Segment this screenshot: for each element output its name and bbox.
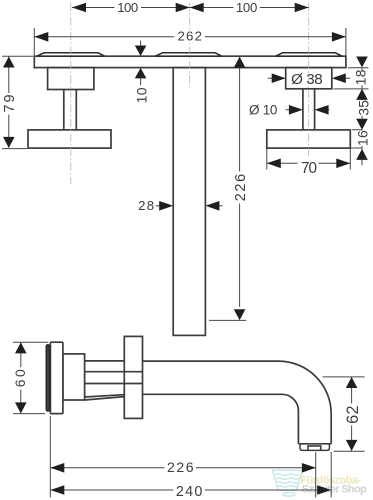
dimension 262: extension lines <box>34 28 346 56</box>
top view: center escutcheon <box>156 53 222 56</box>
side view: flange front ring <box>46 345 49 411</box>
center line right handle <box>308 3 310 158</box>
dimension 100 right: label <box>233 1 260 14</box>
top view: right handle stem <box>303 89 315 130</box>
dimension 226 vertical: bottom arrow <box>234 309 246 320</box>
side view: spout elbow inner curve <box>282 394 298 444</box>
dimension 10 plate: bottom arrow <box>135 68 147 79</box>
side view: spout tube top line (wall section) <box>85 360 125 362</box>
svg-text:18: 18 <box>352 69 368 85</box>
dimension 226 vertical: label <box>233 172 248 204</box>
side view: aerator insert <box>308 446 321 450</box>
dimension 60: bottom arrow <box>15 402 27 413</box>
dimension 18: label <box>355 70 369 85</box>
dimension 28: left arrow <box>156 205 162 207</box>
dimension 60: top arrow <box>15 342 27 353</box>
dimension 226 vertical: reference line <box>209 319 246 321</box>
dimension 262: right arrow <box>332 32 346 42</box>
dimension 79: bottom arrow <box>3 137 15 148</box>
dimension 240: line <box>50 489 331 491</box>
dimension 226 bottom: label <box>165 461 197 475</box>
svg-text:10: 10 <box>133 87 149 103</box>
dimension 100 left: left arrow <box>72 3 86 13</box>
side view: aerator top line <box>298 443 331 445</box>
dimension 79: top arrow <box>3 57 15 68</box>
dimension 240: right arrow <box>317 485 331 495</box>
right chain: extension lines <box>334 68 369 148</box>
dimension 35: label <box>356 100 370 116</box>
svg-text:240: 240 <box>176 484 203 500</box>
svg-text:Ø 10: Ø 10 <box>249 103 278 118</box>
top view: right escutcheon <box>276 53 342 56</box>
dimension 262: left arrow <box>34 32 48 42</box>
extension line flange face <box>49 416 51 498</box>
side view: handle stem bottom line <box>85 383 143 385</box>
dimension 70: line <box>267 162 351 164</box>
top view: right cross handle bar <box>267 130 351 148</box>
svg-text:70: 70 <box>301 160 317 177</box>
dimension 262: label <box>174 30 205 43</box>
dimension 18: bottom arrow <box>356 89 368 100</box>
dimension 62: label <box>344 404 359 426</box>
top view: left escutcheon <box>37 53 105 56</box>
dimension diameter 10: left arrow <box>286 109 292 111</box>
top view: right escutcheon box <box>286 68 332 89</box>
dimension 18: top arrow <box>356 57 368 68</box>
dimension 100 right: left arrow <box>190 3 204 13</box>
dimension 100 right: right arrow <box>295 3 309 13</box>
extension line aerator axis <box>315 452 317 498</box>
dimension 10 plate: top arrow <box>140 41 142 47</box>
dimension 28: right arrow <box>205 201 219 211</box>
dimension 262: line <box>34 36 346 38</box>
side view: aerator band <box>300 444 329 451</box>
dimension 70: right arrow <box>336 159 350 169</box>
side view: tube taper line lower <box>85 397 125 400</box>
dimension 60: line <box>20 342 22 413</box>
dimension 70: left arrow <box>267 159 281 169</box>
side view: spout tube top line (outer section) <box>143 360 279 362</box>
dimension 62: bottom extension <box>334 450 365 452</box>
watermark logo basin <box>272 470 302 496</box>
dimension 16: bottom arrow <box>356 149 368 160</box>
side view: valve body <box>63 354 85 400</box>
dimension 226 bottom: left arrow <box>50 463 64 473</box>
dimension 70: extension lines <box>267 149 351 170</box>
dimension 226 vertical: top arrow <box>234 57 246 68</box>
dimension 60: label <box>14 367 29 390</box>
dimension diameter 38: left arrow <box>268 77 275 79</box>
svg-text:100: 100 <box>117 0 138 15</box>
dimension 62: line <box>351 377 353 451</box>
svg-text:79: 79 <box>2 94 18 112</box>
dimension 226 bottom: right arrow <box>302 463 316 473</box>
dimension diameter 38: right arrow <box>332 73 346 83</box>
dimension 60: extension lines <box>13 342 49 413</box>
dimension 62: top arrow <box>346 377 358 388</box>
svg-text:100: 100 <box>236 0 258 15</box>
dimension 226 vertical: line <box>239 68 241 307</box>
dimension 79: line <box>8 57 10 148</box>
dimension 240: left arrow <box>50 485 64 495</box>
top view: left valve body <box>48 68 94 90</box>
center line left handle <box>70 3 72 184</box>
center line spout <box>189 3 191 90</box>
svg-text:35: 35 <box>357 100 372 116</box>
top view: left cross handle bar <box>28 130 111 148</box>
top view: spout body <box>173 68 205 336</box>
dimension diameter 10: right arrow <box>315 105 329 115</box>
center line spout axis extension <box>323 376 365 378</box>
extension line spout outer edge <box>330 452 332 498</box>
side view: spout elbow outer curve <box>279 361 332 444</box>
svg-text:62: 62 <box>344 405 362 424</box>
dimension 226 bottom: line <box>50 467 316 469</box>
svg-text:226: 226 <box>233 174 249 202</box>
dimension 100 left: right arrow <box>176 3 190 13</box>
side view: tube taper line upper <box>85 395 125 397</box>
top view: left handle stem <box>64 90 77 130</box>
svg-text:226: 226 <box>167 459 194 475</box>
right chain: line <box>361 68 363 166</box>
side view: wall flange plate <box>50 342 63 413</box>
side view: handle stem top line <box>85 371 143 373</box>
svg-text:28: 28 <box>138 198 154 213</box>
svg-text:16: 16 <box>356 130 371 146</box>
dimension 16: label <box>356 131 370 146</box>
svg-text:Ø 38: Ø 38 <box>291 71 323 88</box>
dimension 35: bottom arrow <box>356 119 368 130</box>
svg-text:262: 262 <box>177 29 202 44</box>
dimension 100 left: line <box>72 7 190 9</box>
dimension 62: bottom arrow <box>346 440 358 451</box>
side view: spout tube bottom line <box>143 393 283 395</box>
dimension 79: extension lines <box>2 56 33 148</box>
dimension 70: label <box>298 157 319 174</box>
dimension 240: label <box>173 483 205 497</box>
side view: cross handle bar (vertical) <box>124 336 142 418</box>
dimension 79: label <box>2 93 16 115</box>
top view: mounting plate <box>34 56 346 67</box>
dimension 100 right: line <box>190 7 309 9</box>
dimension 100 left: label <box>115 1 142 14</box>
